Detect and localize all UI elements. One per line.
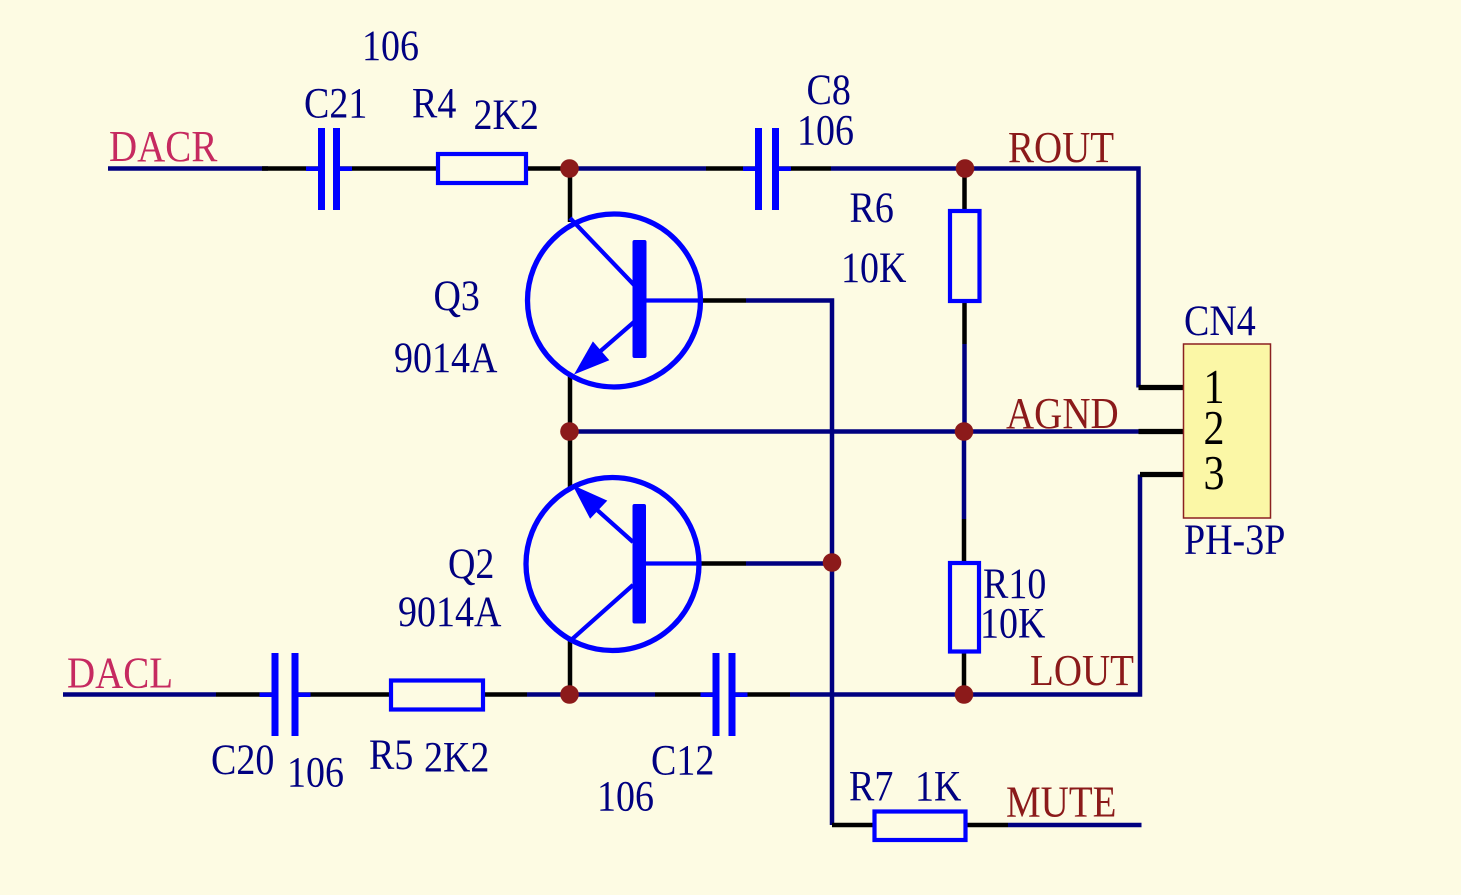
resistor R5 bbox=[391, 681, 483, 710]
wire Q2 base to mute column (navy) bbox=[746, 561, 832, 566]
transistor Q2 bbox=[526, 478, 699, 651]
wire R6 bottom pin (black) bbox=[962, 301, 967, 344]
wire DACL net (navy) bbox=[63, 692, 216, 697]
svg-text:106: 106 bbox=[797, 106, 854, 154]
wire Q3 collector pin (black) bbox=[568, 169, 573, 223]
wire R6 top pin (black) bbox=[962, 169, 967, 212]
capacitor C8 bbox=[743, 128, 791, 210]
svg-text:R6: R6 bbox=[850, 184, 894, 232]
svg-text:106: 106 bbox=[362, 22, 419, 70]
wire Q2 base pin (black) bbox=[699, 561, 746, 566]
capacitor C12 bbox=[701, 653, 748, 736]
svg-text:DACR: DACR bbox=[109, 123, 217, 172]
wire C20 to R5 (black) bbox=[299, 692, 392, 697]
junction node R5/C12/Q2 bbox=[560, 685, 579, 704]
svg-text:Q3: Q3 bbox=[434, 272, 480, 320]
svg-text:R7: R7 bbox=[849, 762, 893, 810]
wire Q3 emitter pin / Q2 emitter pin (black) bbox=[568, 376, 573, 490]
capacitor C21 bbox=[306, 128, 352, 210]
svg-text:9014A: 9014A bbox=[394, 334, 498, 382]
wire R7 left pin (black) bbox=[832, 823, 875, 828]
svg-text:PH-3P: PH-3P bbox=[1184, 516, 1285, 564]
wire R10 bottom pin (black) bbox=[962, 652, 967, 695]
svg-text:C12: C12 bbox=[651, 736, 714, 784]
wire R5 to node (navy) bbox=[527, 692, 571, 697]
svg-text:1K: 1K bbox=[915, 762, 962, 810]
junction node AGND left bbox=[560, 422, 579, 441]
wire Q3 base to mute column (navy) bbox=[746, 301, 832, 826]
wire C12 to LOUT corner (navy) bbox=[790, 475, 1140, 695]
svg-text:C21: C21 bbox=[304, 79, 367, 127]
svg-text:R4: R4 bbox=[412, 79, 456, 127]
connector CN4 bbox=[1184, 344, 1271, 518]
junction node R4/C8/Q3 bbox=[560, 159, 579, 178]
wire R4 to node (black) bbox=[526, 166, 571, 171]
svg-text:ROUT: ROUT bbox=[1008, 124, 1114, 173]
wire Q2 collector pin (black) bbox=[568, 639, 573, 695]
wire C21 to R4 (black) bbox=[340, 166, 438, 171]
junction node ROUT/R6 bbox=[956, 159, 975, 178]
wire C8 left pin (black) bbox=[706, 166, 755, 171]
wire Q3 base pin (black) bbox=[701, 298, 747, 303]
wire R7 right pin (black) bbox=[966, 823, 1009, 828]
svg-text:2K2: 2K2 bbox=[474, 91, 539, 139]
svg-text:10K: 10K bbox=[980, 599, 1046, 647]
wire AGND net (navy) bbox=[570, 429, 1139, 434]
resistor R10 bbox=[950, 563, 979, 652]
wire C12 left pin (black) bbox=[655, 692, 713, 697]
wire DACR net (navy) bbox=[108, 166, 268, 171]
wire C20 left pin (black) bbox=[216, 692, 272, 697]
wire node to C12 (navy) bbox=[571, 692, 655, 697]
svg-text:DACL: DACL bbox=[67, 649, 173, 698]
svg-text:106: 106 bbox=[597, 772, 654, 820]
wire R10 top pin (black) bbox=[962, 519, 967, 563]
svg-text:10K: 10K bbox=[841, 244, 907, 292]
transistor Q3 bbox=[528, 214, 701, 387]
svg-text:LOUT: LOUT bbox=[1030, 647, 1134, 696]
resistor R6 bbox=[950, 211, 980, 301]
svg-text:9014A: 9014A bbox=[398, 588, 502, 636]
svg-text:Q2: Q2 bbox=[448, 540, 494, 588]
resistor R7 bbox=[875, 812, 966, 841]
capacitor C20 bbox=[260, 653, 311, 736]
svg-text:CN4: CN4 bbox=[1184, 297, 1256, 345]
resistor R4 bbox=[438, 154, 526, 183]
wire R5 right pin (black) bbox=[483, 692, 527, 697]
wire C8 to ROUT corner (navy) bbox=[831, 169, 1139, 388]
svg-text:AGND: AGND bbox=[1006, 390, 1119, 439]
svg-text:R5: R5 bbox=[369, 731, 413, 779]
wire AGND to R10 (navy) bbox=[962, 432, 967, 520]
wire node to C8 (navy) bbox=[571, 166, 706, 171]
wire CN4 pin1 stub (black) bbox=[1139, 385, 1184, 390]
wire CN4 pin3 stub (black) bbox=[1140, 472, 1184, 477]
svg-text:106: 106 bbox=[287, 748, 344, 796]
wire C21 left pin (black) bbox=[262, 166, 318, 171]
svg-text:2K2: 2K2 bbox=[424, 733, 489, 781]
wire CN4 pin2 stub (black) bbox=[1139, 429, 1184, 434]
junction node Q2 base/mute column bbox=[823, 553, 842, 572]
wire MUTE net (navy) bbox=[1008, 823, 1142, 828]
wire C8 right pin (black) bbox=[779, 166, 831, 171]
svg-text:MUTE: MUTE bbox=[1006, 778, 1116, 827]
junction node LOUT/R10 bbox=[955, 685, 974, 704]
junction node AGND/R6/R10 bbox=[955, 422, 974, 441]
wire R6 to AGND (navy) bbox=[962, 344, 967, 432]
wire C12 right pin (black) bbox=[736, 692, 791, 697]
svg-text:3: 3 bbox=[1204, 446, 1225, 499]
svg-text:C20: C20 bbox=[211, 736, 274, 784]
